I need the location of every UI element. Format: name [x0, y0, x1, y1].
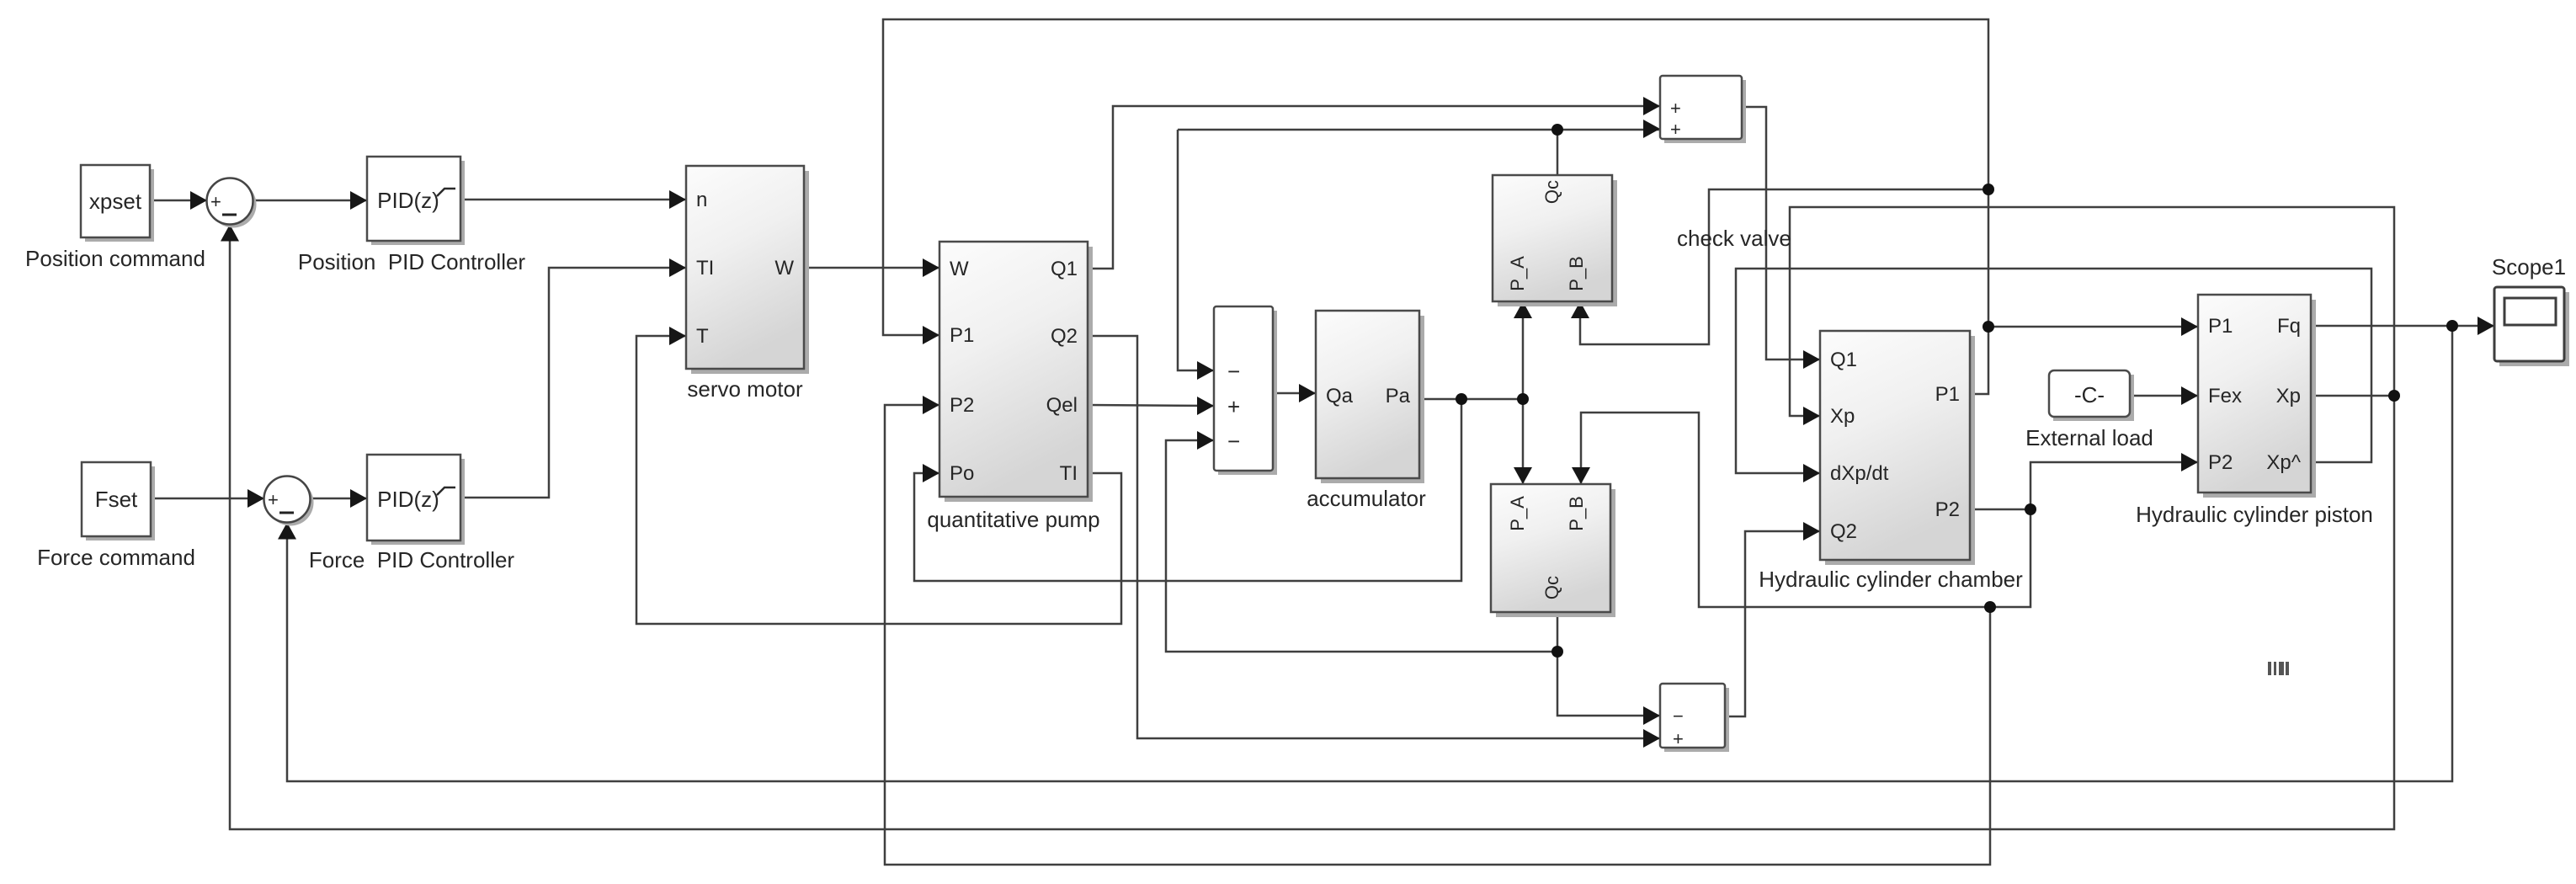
annotation: small bar mark	[2268, 662, 2289, 675]
block: quantitative pump subsystem	[927, 242, 1099, 532]
svg-text:P_B: P_B	[1566, 256, 1587, 291]
svg-text:accumulator: accumulator	[1307, 486, 1426, 511]
svg-text:−: −	[1227, 359, 1240, 384]
svg-text:P1: P1	[2208, 315, 2233, 338]
svg-text:xpset: xpset	[89, 189, 142, 214]
svg-text:Fq: Fq	[2277, 315, 2301, 338]
svg-text:Hydraulic cylinder chamber: Hydraulic cylinder chamber	[1759, 567, 2023, 592]
svg-text:P2: P2	[2208, 451, 2233, 474]
wire: sum junction 2 to Force PID Controller	[311, 489, 368, 508]
svg-text:Q1: Q1	[1830, 349, 1857, 371]
block: accumulator subsystem	[1307, 311, 1426, 511]
svg-text:+: +	[268, 489, 279, 510]
node: junction on Pa line at check valve columns	[1517, 393, 1529, 405]
svg-text:Qc: Qc	[1541, 576, 1562, 599]
wire: check valve 2 Qc output to bottom sum input 1 and to 3-input sum input 3	[1166, 431, 1660, 725]
wire: chamber P2 output to piston P2 input, pump P2 input and check valve 2 P_B input	[885, 396, 2198, 865]
svg-text:PID(z): PID(z)	[377, 487, 439, 512]
svg-text:P_A: P_A	[1507, 256, 1528, 291]
svg-text:P1: P1	[1935, 383, 1960, 406]
block: Force PID Controller PID(z)	[309, 455, 515, 572]
svg-text:Fex: Fex	[2208, 385, 2242, 407]
node: junction on P1 line at piston branch	[1983, 321, 1994, 333]
block: xpset constant (Position command)	[25, 165, 205, 271]
node: junction of Qc2 line below check valve 2	[1551, 646, 1563, 658]
sum junction 1 (position error)	[207, 178, 257, 228]
block: check valve subsystem (upper)	[1493, 175, 1791, 306]
svg-text:P_B: P_B	[1566, 496, 1587, 531]
wire: chamber P1 output feedback loop to pump P1 input	[883, 19, 1988, 394]
svg-text:+: +	[1227, 394, 1240, 419]
wire: piston Xp output to chamber Xp input and position feedback to sum junction 1	[221, 207, 2394, 829]
wire: P1 branch to check valve P_B input	[1571, 189, 1988, 344]
svg-text:check valve: check valve	[1677, 226, 1791, 251]
wire: piston Xp^ output to chamber dXp/dt input	[1736, 269, 2371, 482]
wire: P1 branch to piston P1 input	[1988, 317, 2198, 336]
wire: piston Fq output to Scope1 and force feedback to sum junction 2	[278, 317, 2494, 781]
svg-text:P_A: P_A	[1507, 496, 1528, 531]
svg-text:−: −	[1673, 706, 1684, 727]
wire: pump TI output loop to servo motor T input	[636, 327, 1121, 624]
node: junction on Xp output line	[2388, 390, 2400, 402]
svg-text:Xp: Xp	[1830, 405, 1855, 428]
svg-text:Force PID Controller: Force PID Controller	[309, 547, 515, 572]
svg-text:P1: P1	[950, 324, 974, 347]
svg-text:W: W	[950, 258, 969, 280]
svg-text:P2: P2	[950, 394, 974, 417]
node: junction on Fq line at scope input	[2446, 320, 2458, 332]
wire: bottom sum output to chamber Q2 input	[1725, 522, 1820, 716]
wire: accumulator Pa output to pump Po input and check valves P_A inputs	[914, 301, 1532, 581]
svg-text:Qc: Qc	[1541, 180, 1562, 204]
wire: Fset output to sum junction 2	[151, 489, 265, 508]
node: junction on Pa line toward pump Po loop	[1456, 393, 1467, 405]
block: Fset constant (Force command)	[37, 462, 195, 570]
wire: Position PID Controller output to servo motor n input	[460, 190, 686, 209]
svg-text:Fset: Fset	[95, 487, 138, 512]
svg-text:T: T	[696, 325, 709, 348]
svg-text:servo motor: servo motor	[687, 376, 803, 402]
svg-text:Position PID Controller: Position PID Controller	[298, 249, 526, 274]
svg-text:dXp/dt: dXp/dt	[1830, 462, 1889, 485]
svg-text:Q2: Q2	[1051, 325, 1078, 348]
svg-text:Scope1: Scope1	[2492, 254, 2566, 280]
block: Scope1	[2492, 254, 2569, 366]
block: 3-input sum (minus plus minus)	[1214, 306, 1277, 475]
sum junction 2 (force error)	[264, 477, 314, 526]
wire: pump Q1 output to plus-plus sum input 1	[1088, 97, 1660, 269]
wire: Force PID Controller output to servo motor TI input	[460, 258, 686, 498]
svg-text:External load: External load	[2025, 425, 2153, 450]
block: Hydraulic cylinder piston subsystem	[2136, 295, 2373, 527]
block: Hydraulic cylinder chamber subsystem	[1759, 331, 2023, 592]
block: servo motor subsystem	[686, 166, 809, 402]
svg-text:TI: TI	[696, 257, 714, 280]
svg-text:-C-: -C-	[2074, 382, 2105, 407]
svg-text:+: +	[1670, 98, 1681, 119]
node: junction on P2 line at pump feedback branch	[1984, 601, 1996, 613]
wire: pump Q2 output to bottom sum input 2	[1088, 336, 1660, 748]
svg-text:Hydraulic cylinder piston: Hydraulic cylinder piston	[2136, 502, 2373, 527]
svg-text:+: +	[1673, 728, 1684, 749]
node: junction of Qc line above check valve	[1551, 124, 1563, 136]
wire: External load constant to piston Fex input	[2130, 386, 2198, 405]
svg-text:Xp: Xp	[2276, 385, 2301, 407]
wire: plus-plus sum output to chamber Q1 input	[1742, 107, 1820, 369]
node: junction on P1 line at check valve branch	[1983, 184, 1994, 195]
block: bottom sum (minus plus)	[1660, 684, 1729, 752]
block: check valve 2 subsystem (lower)	[1491, 484, 1615, 617]
svg-text:PID(z): PID(z)	[377, 188, 439, 213]
wire: xpset output to sum junction 1	[150, 191, 208, 210]
wire: servo motor W output to pump W input	[804, 258, 939, 277]
svg-text:Q1: Q1	[1051, 258, 1078, 280]
wire: check valve Qc output to plus-plus sum input 2 and to 3-input sum input 1	[1178, 120, 1660, 380]
wire: pump Qel output to 3-input sum input 2	[1088, 397, 1214, 415]
svg-text:−: −	[1227, 429, 1240, 454]
block: plus-plus sum	[1660, 76, 1746, 143]
wire: 3-input sum output to accumulator Qa input	[1273, 384, 1316, 402]
svg-text:Qa: Qa	[1326, 385, 1354, 407]
svg-text:W: W	[774, 257, 794, 280]
svg-text:TI: TI	[1060, 462, 1078, 485]
block: External load constant -C-	[2025, 370, 2153, 450]
block: Position PID Controller PID(z)	[298, 157, 526, 274]
svg-text:Qel: Qel	[1046, 394, 1078, 417]
svg-text:Q2: Q2	[1830, 520, 1857, 543]
svg-text:P2: P2	[1935, 498, 1960, 521]
svg-text:quantitative pump: quantitative pump	[927, 507, 1099, 532]
svg-text:Po: Po	[950, 462, 974, 485]
svg-text:Position command: Position command	[25, 246, 205, 271]
svg-text:n: n	[696, 189, 707, 211]
wire: sum junction 1 to Position PID Controller	[253, 191, 368, 210]
svg-text:Xp^: Xp^	[2266, 451, 2301, 474]
svg-text:Pa: Pa	[1386, 385, 1411, 407]
svg-text:+: +	[1670, 119, 1681, 140]
svg-text:Force command: Force command	[37, 545, 195, 570]
svg-text:+: +	[210, 191, 221, 212]
node: junction on P2 line at piston branch	[2025, 503, 2036, 515]
